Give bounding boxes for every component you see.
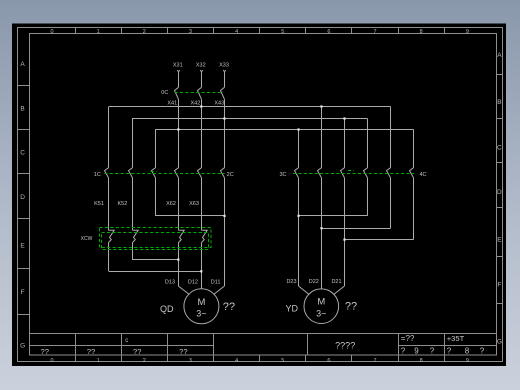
svg-text:K51: K51 <box>94 201 104 207</box>
svg-text:D13: D13 <box>165 279 175 285</box>
svg-text:??: ?? <box>345 300 357 312</box>
svg-text:G: G <box>497 338 502 345</box>
svg-text:D23: D23 <box>286 279 296 285</box>
svg-text:D12: D12 <box>188 279 198 285</box>
svg-text:A: A <box>20 61 25 68</box>
svg-text:?: ? <box>447 347 452 356</box>
svg-text:X63: X63 <box>189 201 199 207</box>
svg-text:0: 0 <box>50 358 53 364</box>
svg-text:9: 9 <box>466 29 469 35</box>
svg-text:8: 8 <box>420 29 423 35</box>
svg-text:D21: D21 <box>331 279 341 285</box>
svg-text:8: 8 <box>420 358 423 364</box>
svg-text:4: 4 <box>235 29 238 35</box>
svg-text:D22: D22 <box>309 279 319 285</box>
svg-text:4C: 4C <box>419 172 426 178</box>
svg-text:M: M <box>197 297 205 308</box>
svg-text:B: B <box>20 105 24 112</box>
svg-text:A: A <box>497 52 502 59</box>
svg-text:3~: 3~ <box>316 309 326 319</box>
svg-text:8: 8 <box>465 347 470 356</box>
svg-text:7: 7 <box>374 29 377 35</box>
svg-text:M: M <box>317 297 325 308</box>
svg-text:F: F <box>497 281 501 288</box>
svg-text:YD: YD <box>286 304 299 314</box>
svg-text:??: ?? <box>223 301 235 313</box>
svg-text:K52: K52 <box>118 201 128 207</box>
svg-text:??: ?? <box>40 347 48 356</box>
svg-text:2: 2 <box>143 358 146 364</box>
svg-text:C: C <box>20 149 25 156</box>
svg-text:5: 5 <box>281 29 284 35</box>
svg-text:D11: D11 <box>211 279 221 285</box>
svg-text:X33: X33 <box>219 63 229 69</box>
svg-text:0C: 0C <box>161 90 168 96</box>
svg-text:6: 6 <box>327 358 330 364</box>
svg-text:D: D <box>20 194 25 201</box>
svg-text:X32: X32 <box>196 63 206 69</box>
svg-text:7: 7 <box>374 358 377 364</box>
svg-text:QD: QD <box>160 304 174 314</box>
svg-text:3C: 3C <box>279 172 286 178</box>
svg-text:3: 3 <box>189 358 192 364</box>
svg-text:c: c <box>125 338 128 344</box>
svg-text:=??: =?? <box>401 334 415 343</box>
svg-text:5: 5 <box>281 358 284 364</box>
svg-text:?: ? <box>430 347 435 356</box>
svg-text:??: ?? <box>179 347 187 356</box>
svg-text:4: 4 <box>235 358 238 364</box>
svg-text:3: 3 <box>189 29 192 35</box>
svg-text:?: ? <box>401 347 406 356</box>
svg-text:X31: X31 <box>173 63 183 69</box>
svg-text:E: E <box>497 236 502 243</box>
svg-text:9: 9 <box>414 347 419 356</box>
svg-text:??: ?? <box>87 347 95 356</box>
svg-text:XCW: XCW <box>81 236 93 242</box>
svg-text:2: 2 <box>143 29 146 35</box>
svg-text:X43: X43 <box>214 100 224 106</box>
svg-text:2C: 2C <box>227 172 234 178</box>
svg-text:?: ? <box>480 347 485 356</box>
svg-text:1C: 1C <box>94 172 101 178</box>
svg-text:D: D <box>497 189 502 196</box>
svg-text:X42: X42 <box>191 100 201 106</box>
svg-text:F: F <box>21 289 25 296</box>
svg-text:B: B <box>497 99 501 106</box>
svg-text:X41: X41 <box>167 100 177 106</box>
svg-text:1: 1 <box>97 29 100 35</box>
svg-text:G: G <box>20 342 25 349</box>
svg-text:9: 9 <box>466 358 469 364</box>
svg-text:0: 0 <box>50 29 53 35</box>
svg-text:1: 1 <box>97 358 100 364</box>
svg-text:+35T: +35T <box>447 334 465 343</box>
svg-text:E: E <box>20 242 25 249</box>
svg-text:3~: 3~ <box>196 309 206 319</box>
svg-text:X62: X62 <box>166 201 176 207</box>
svg-text:C: C <box>497 144 502 151</box>
svg-text:????: ???? <box>335 340 355 350</box>
svg-text:??: ?? <box>133 347 141 356</box>
svg-text:6: 6 <box>327 29 330 35</box>
